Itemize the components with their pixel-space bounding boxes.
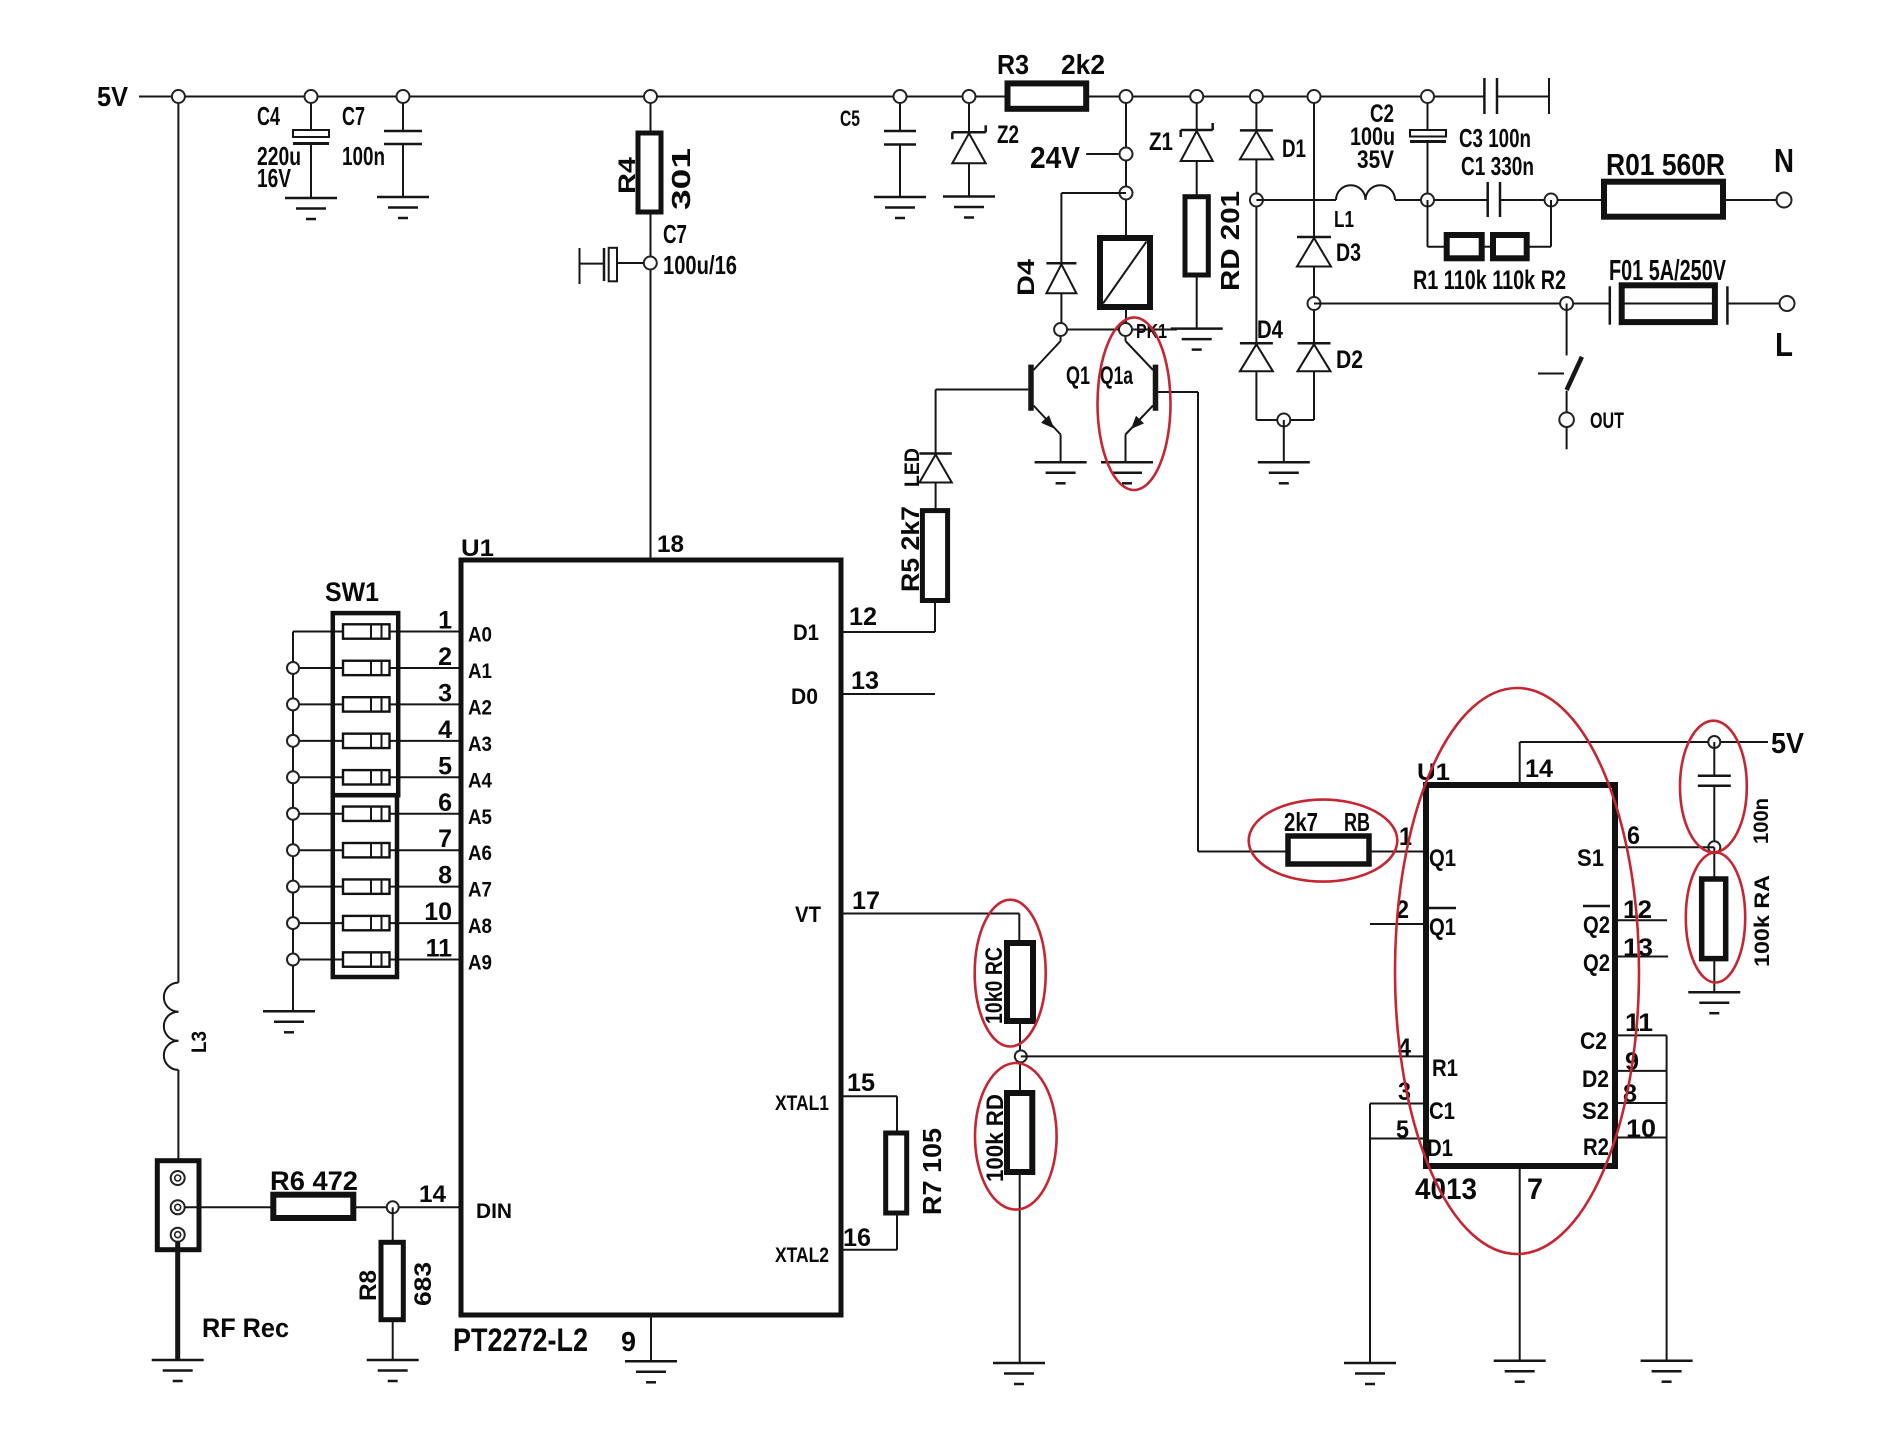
svg-text:A5: A5 — [468, 806, 492, 829]
svg-text:U1: U1 — [461, 535, 494, 562]
svg-text:R01 560R: R01 560R — [1606, 147, 1725, 182]
svg-text:A8: A8 — [468, 915, 492, 938]
svg-text:L3: L3 — [188, 1031, 211, 1053]
svg-text:10k0 RC: 10k0 RC — [981, 947, 1008, 1024]
svg-text:A0: A0 — [468, 624, 492, 647]
svg-text:R4: R4 — [614, 156, 641, 194]
svg-text:L1: L1 — [1334, 206, 1354, 232]
svg-text:PT2272-L2: PT2272-L2 — [453, 1322, 588, 1358]
svg-text:F01 5A/250V: F01 5A/250V — [1609, 255, 1726, 287]
svg-text:C7: C7 — [342, 101, 365, 131]
svg-text:2: 2 — [438, 643, 452, 671]
svg-text:10: 10 — [424, 898, 452, 926]
svg-text:D1: D1 — [793, 620, 819, 645]
svg-text:Q1a: Q1a — [1100, 362, 1134, 390]
svg-text:PK1: PK1 — [1136, 321, 1167, 343]
svg-text:A7: A7 — [468, 879, 492, 902]
svg-text:D1: D1 — [1282, 135, 1306, 163]
svg-text:L: L — [1775, 326, 1793, 363]
svg-text:C1: C1 — [1429, 1098, 1455, 1125]
svg-text:5V: 5V — [97, 81, 128, 112]
svg-text:5V: 5V — [1771, 728, 1805, 760]
svg-text:A3: A3 — [468, 733, 492, 756]
svg-text:DIN: DIN — [476, 1200, 512, 1223]
svg-text:Q1: Q1 — [1429, 845, 1456, 872]
svg-text:D1: D1 — [1427, 1135, 1453, 1162]
svg-text:A6: A6 — [468, 842, 492, 865]
svg-text:D0: D0 — [791, 684, 818, 709]
svg-text:Q1: Q1 — [1066, 362, 1090, 390]
svg-text:LED: LED — [901, 448, 924, 487]
svg-text:5: 5 — [438, 752, 452, 780]
svg-text:35V: 35V — [1357, 146, 1394, 174]
svg-text:10: 10 — [1626, 1115, 1656, 1143]
svg-text:D2: D2 — [1582, 1066, 1609, 1093]
svg-text:R1 110k 110k R2: R1 110k 110k R2 — [1413, 265, 1566, 295]
svg-text:R8: R8 — [355, 1270, 382, 1301]
svg-text:18: 18 — [657, 531, 684, 558]
svg-text:100k RA: 100k RA — [1751, 875, 1774, 967]
svg-text:11: 11 — [1625, 1009, 1653, 1037]
svg-text:2k7: 2k7 — [1284, 807, 1318, 837]
svg-text:11: 11 — [426, 935, 453, 963]
svg-text:D2: D2 — [1336, 346, 1363, 374]
svg-text:301: 301 — [666, 148, 696, 210]
svg-text:683: 683 — [410, 1262, 437, 1306]
svg-text:N: N — [1774, 142, 1794, 179]
svg-text:17: 17 — [852, 887, 880, 915]
svg-text:14: 14 — [419, 1181, 447, 1208]
svg-text:C2: C2 — [1580, 1028, 1607, 1055]
svg-text:100n: 100n — [1750, 798, 1773, 844]
svg-text:VT: VT — [795, 902, 822, 927]
svg-text:100u/16: 100u/16 — [663, 250, 737, 280]
svg-text:R2: R2 — [1583, 1134, 1609, 1161]
svg-text:24V: 24V — [1030, 140, 1080, 175]
svg-text:4: 4 — [438, 716, 452, 744]
svg-text:6: 6 — [1627, 822, 1640, 850]
svg-text:R6 472: R6 472 — [270, 1166, 358, 1196]
svg-text:OUT: OUT — [1590, 408, 1624, 433]
svg-text:Q1: Q1 — [1429, 914, 1456, 941]
svg-text:1: 1 — [438, 607, 452, 635]
svg-text:100k RD: 100k RD — [982, 1094, 1009, 1182]
svg-text:16: 16 — [843, 1224, 871, 1252]
svg-text:XTAL1: XTAL1 — [775, 1092, 829, 1115]
svg-text:Z1: Z1 — [1149, 128, 1173, 156]
svg-text:C5: C5 — [840, 106, 860, 131]
svg-text:S2: S2 — [1582, 1098, 1609, 1125]
svg-text:100n: 100n — [342, 141, 385, 171]
svg-text:D4: D4 — [1257, 316, 1283, 344]
svg-text:RB: RB — [1344, 807, 1370, 837]
svg-text:C3 100n: C3 100n — [1459, 123, 1531, 153]
svg-text:9: 9 — [621, 1326, 636, 1357]
svg-text:R1: R1 — [1432, 1055, 1458, 1082]
svg-text:R7 105: R7 105 — [917, 1128, 947, 1215]
svg-text:Z2: Z2 — [997, 121, 1019, 149]
svg-text:R5 2k7: R5 2k7 — [897, 506, 925, 592]
svg-text:5: 5 — [1396, 1116, 1409, 1144]
svg-text:D4: D4 — [1013, 258, 1040, 296]
svg-text:2k2: 2k2 — [1061, 49, 1105, 80]
svg-text:15: 15 — [847, 1069, 875, 1097]
svg-text:Q2: Q2 — [1583, 912, 1610, 939]
svg-text:7: 7 — [1527, 1173, 1543, 1206]
svg-text:A4: A4 — [468, 769, 492, 792]
svg-text:14: 14 — [1525, 755, 1553, 783]
svg-text:C1 330n: C1 330n — [1461, 151, 1534, 181]
svg-text:C4: C4 — [257, 101, 280, 131]
svg-text:16V: 16V — [257, 163, 291, 193]
svg-text:D3: D3 — [1336, 239, 1361, 267]
svg-text:S1: S1 — [1577, 845, 1604, 872]
svg-text:3: 3 — [438, 679, 452, 707]
svg-text:7: 7 — [438, 825, 452, 853]
svg-text:RD 201: RD 201 — [1215, 191, 1245, 291]
svg-text:A1: A1 — [468, 660, 492, 683]
svg-text:13: 13 — [851, 667, 879, 695]
svg-text:C7: C7 — [663, 219, 687, 249]
svg-text:Q2: Q2 — [1583, 950, 1610, 977]
svg-text:XTAL2: XTAL2 — [775, 1244, 829, 1267]
svg-text:8: 8 — [438, 862, 452, 890]
svg-text:SW1: SW1 — [325, 577, 379, 607]
svg-text:6: 6 — [438, 789, 452, 817]
svg-text:A2: A2 — [468, 696, 492, 719]
svg-text:R3: R3 — [997, 49, 1029, 80]
svg-text:RF Rec: RF Rec — [202, 1313, 289, 1343]
svg-text:A9: A9 — [468, 952, 492, 975]
svg-text:12: 12 — [849, 603, 877, 631]
